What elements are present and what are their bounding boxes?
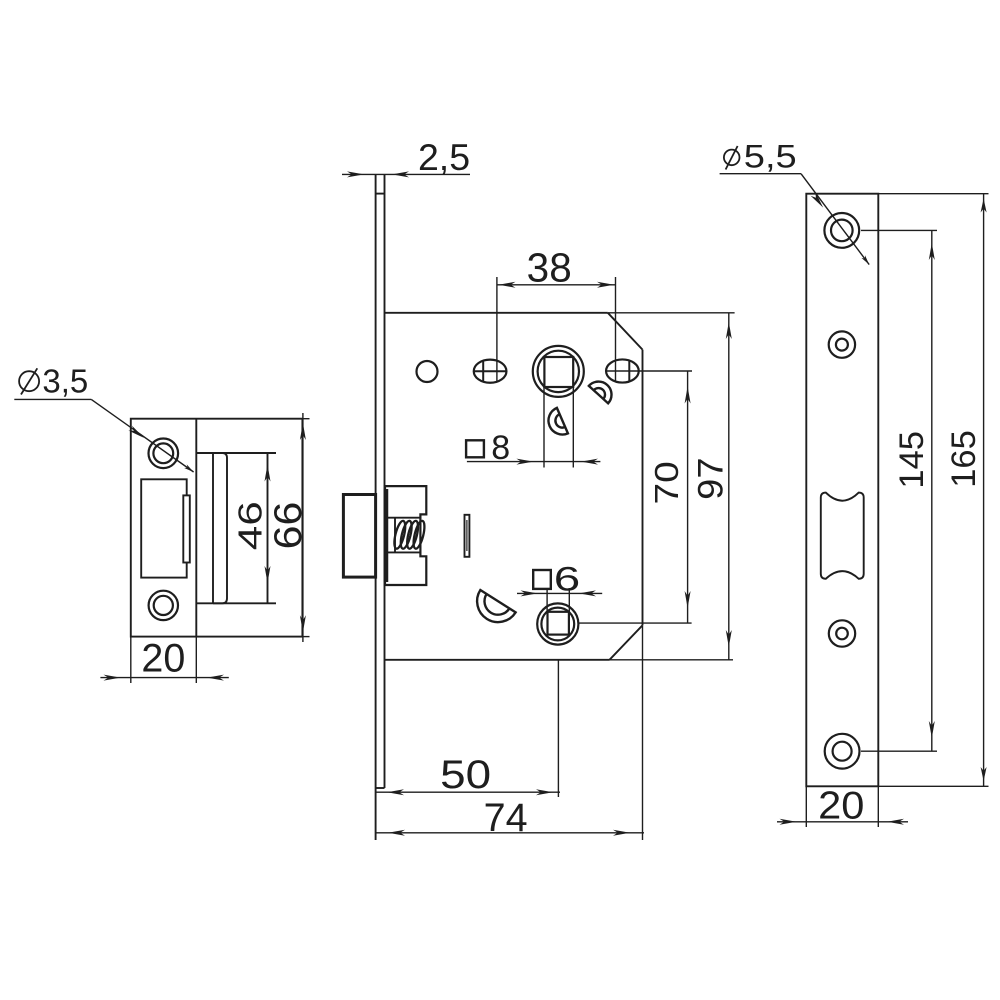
svg-text:2,5: 2,5: [418, 136, 470, 178]
svg-text:145: 145: [893, 431, 931, 489]
svg-text:46: 46: [232, 501, 270, 550]
svg-text:70: 70: [647, 461, 685, 504]
svg-text:74: 74: [484, 796, 528, 840]
svg-text:38: 38: [527, 245, 572, 291]
svg-text:6: 6: [554, 560, 580, 598]
svg-text:165: 165: [945, 430, 983, 488]
svg-text:8: 8: [491, 429, 510, 467]
svg-text:97: 97: [691, 457, 730, 499]
svg-text:50: 50: [440, 753, 491, 797]
svg-text:20: 20: [818, 785, 864, 827]
svg-text:5,5: 5,5: [744, 139, 797, 174]
svg-text:20: 20: [141, 637, 185, 681]
svg-text:3,5: 3,5: [42, 363, 88, 400]
svg-text:66: 66: [266, 502, 310, 550]
